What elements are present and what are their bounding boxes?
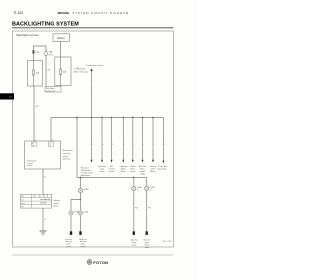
svg-text:switch: switch bbox=[99, 170, 104, 173]
wire to terminal bbox=[70, 215, 72, 231]
arrow drop 6 bbox=[139, 117, 146, 176]
svg-text:(3.4W): (3.4W) bbox=[137, 187, 142, 189]
svg-text:L: L bbox=[113, 144, 114, 146]
svg-text:(illum.): (illum.) bbox=[150, 171, 156, 173]
arrow from combination switch bbox=[90, 68, 92, 71]
wire to terminal bbox=[133, 191, 135, 231]
svg-text:control: control bbox=[63, 152, 70, 155]
svg-text:Combination switch: Combination switch bbox=[86, 64, 103, 67]
svg-text:15A: 15A bbox=[35, 51, 39, 54]
connector note box bbox=[45, 87, 61, 93]
svg-text:P/B: P/B bbox=[148, 208, 151, 210]
junction dot bbox=[76, 117, 78, 119]
svg-text:L: L bbox=[103, 144, 104, 146]
svg-text:switch: switch bbox=[53, 202, 58, 205]
svg-text:FOTON: FOTON bbox=[93, 260, 108, 265]
arrow drop 5 bbox=[130, 117, 135, 173]
svg-text:Head: Head bbox=[21, 203, 25, 205]
wire battery to fuse box bbox=[60, 42, 62, 58]
lamp sub-bus bbox=[77, 177, 147, 179]
lamp column A: glove box bbox=[65, 178, 89, 249]
terminal T3 bbox=[133, 231, 135, 235]
svg-text:nation: nation bbox=[130, 170, 135, 173]
page edge black tab bbox=[0, 93, 14, 99]
lamp column C bbox=[144, 178, 156, 249]
svg-text:nation: nation bbox=[81, 245, 86, 248]
wire through fuse F1 bbox=[33, 61, 35, 71]
footer logo mark bbox=[87, 260, 108, 265]
svg-text:(illum.): (illum.) bbox=[53, 206, 59, 208]
fuse F1 bbox=[33, 70, 35, 75]
svg-text:L: L bbox=[144, 144, 145, 146]
fuse box right bbox=[55, 57, 71, 86]
junction dot bbox=[80, 177, 82, 179]
arrow drop 8 (bus right end corner) bbox=[158, 118, 167, 171]
svg-text:To illumination: To illumination bbox=[74, 68, 86, 71]
svg-text:P/B: P/B bbox=[135, 208, 138, 210]
connector cell pin 3 bbox=[32, 142, 37, 146]
svg-text:30A: 30A bbox=[49, 51, 53, 54]
svg-text:L: L bbox=[154, 144, 155, 146]
bulb L3 bbox=[79, 211, 83, 215]
svg-text:To: To bbox=[77, 67, 79, 69]
svg-text:R/L: R/L bbox=[32, 143, 34, 145]
svg-text:B: B bbox=[44, 177, 46, 179]
svg-text:(F/L): (F/L) bbox=[49, 54, 53, 56]
svg-text:ILL: ILL bbox=[49, 143, 51, 145]
arrow drop 7 bbox=[150, 117, 156, 173]
battery B1 bbox=[53, 34, 70, 42]
svg-text:OFF: OFF bbox=[33, 196, 36, 198]
svg-text:L/R: L/R bbox=[35, 106, 39, 108]
svg-text:sw: sw bbox=[32, 145, 34, 147]
svg-text:panel: panel bbox=[109, 171, 114, 173]
svg-text:L: L bbox=[93, 87, 94, 89]
svg-text:L: L bbox=[93, 144, 94, 146]
svg-text:2: 2 bbox=[44, 196, 45, 198]
bulb L1 bbox=[78, 188, 82, 192]
wire to terminal bbox=[146, 191, 148, 231]
svg-text:BACKLIGHTING SYSTEM: BACKLIGHTING SYSTEM bbox=[12, 22, 79, 28]
wire bus left end into control switch bbox=[50, 118, 52, 142]
arrow drop 4 bbox=[119, 117, 127, 173]
svg-text:(Refer to EL-ILL.): (Refer to EL-ILL.) bbox=[74, 70, 89, 73]
svg-text:switch: switch bbox=[63, 155, 69, 158]
svg-text:Illumination: Illumination bbox=[63, 149, 73, 152]
wire left fuse box to control unit bbox=[33, 86, 35, 141]
svg-text:x2: x2 bbox=[150, 189, 152, 191]
lamp column B bbox=[130, 178, 142, 247]
wire drop to lamp sub-bus bbox=[76, 118, 78, 178]
wire table to ground bbox=[42, 208, 44, 231]
svg-text:switch: switch bbox=[27, 164, 32, 167]
svg-text:TI-102: TI-102 bbox=[13, 11, 23, 15]
svg-text:MEL448B: MEL448B bbox=[162, 241, 172, 243]
bulb L5 bbox=[145, 186, 149, 190]
svg-text:nation: nation bbox=[66, 245, 71, 248]
svg-text:Battery: Battery bbox=[58, 37, 66, 40]
svg-text:nation cont.: nation cont. bbox=[46, 89, 56, 92]
svg-text:Backlight system: Backlight system bbox=[17, 33, 40, 37]
svg-text:R/L: R/L bbox=[48, 70, 51, 72]
wire branch: fusible link loop bbox=[34, 46, 47, 87]
junction dot bbox=[133, 177, 135, 179]
wire split bbox=[71, 200, 81, 211]
svg-text:24: 24 bbox=[69, 154, 71, 156]
junction dot bbox=[91, 117, 93, 119]
illumination control switch box bbox=[25, 141, 61, 169]
svg-text:illumination: illumination bbox=[81, 174, 90, 177]
arrow drop 1 (front meter illum) bbox=[81, 118, 94, 177]
wire through fuse F2 bbox=[60, 57, 62, 69]
wire fuse box to connector box bbox=[60, 86, 62, 87]
fusible link FL1 (rect symbol) bbox=[33, 50, 35, 53]
wire control switch to lighting switch table bbox=[42, 169, 44, 194]
connector cell pin 1 bbox=[49, 142, 54, 146]
svg-text:15A: 15A bbox=[36, 71, 40, 74]
svg-text:L: L bbox=[134, 144, 135, 146]
footer rule bbox=[12, 254, 174, 256]
svg-text:(3.4W): (3.4W) bbox=[84, 189, 90, 191]
bulb L4 bbox=[132, 186, 136, 190]
svg-text:nation: nation bbox=[145, 246, 150, 249]
junction dot bbox=[80, 199, 82, 201]
svg-text:nation: nation bbox=[132, 243, 137, 246]
svg-text:(1.4W): (1.4W) bbox=[83, 211, 88, 213]
svg-text:L: L bbox=[165, 144, 166, 146]
svg-text:B: B bbox=[44, 219, 46, 221]
arrow drop 3 bbox=[109, 117, 115, 173]
svg-text:3: 3 bbox=[35, 139, 36, 141]
svg-text:Lighting: Lighting bbox=[53, 199, 60, 202]
svg-text:x2: x2 bbox=[137, 189, 139, 191]
diagram frame bbox=[13, 31, 174, 247]
wire combination switch to bus bbox=[91, 71, 93, 118]
terminal T4 bbox=[146, 231, 148, 235]
svg-text:(illum.): (illum.) bbox=[120, 171, 126, 173]
fuse F2 bbox=[60, 69, 62, 75]
title underline bbox=[12, 27, 174, 29]
svg-text:(ring): (ring) bbox=[140, 172, 145, 175]
fusible link FL2 (circle symbol) bbox=[44, 52, 48, 56]
bulb L2 bbox=[69, 211, 73, 215]
fuse box left bbox=[28, 61, 43, 87]
terminal T2 bbox=[79, 231, 81, 235]
svg-text:(dimmer): (dimmer) bbox=[63, 159, 71, 161]
svg-text:10A: 10A bbox=[63, 71, 67, 74]
terminal T1 bbox=[70, 231, 72, 235]
ground G1 bbox=[40, 230, 47, 232]
svg-text:(3.4W): (3.4W) bbox=[150, 187, 155, 189]
illumination bus (node ILL+) bbox=[51, 117, 164, 119]
arrow drop 2 bbox=[98, 117, 105, 173]
lighting switch position table bbox=[20, 194, 51, 208]
svg-text:1: 1 bbox=[52, 139, 53, 141]
svg-text:WIRING. SYSTEM CIRCUIT DIAGRAM: WIRING. SYSTEM CIRCUIT DIAGRAM bbox=[58, 11, 130, 15]
svg-text:L: L bbox=[124, 144, 125, 146]
svg-text:lamp relay: lamp relay bbox=[158, 167, 167, 170]
